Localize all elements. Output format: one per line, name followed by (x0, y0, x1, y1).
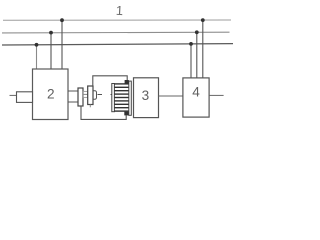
svg-text:3: 3 (142, 88, 150, 103)
svg-text:1: 1 (115, 3, 123, 18)
svg-text:2: 2 (47, 86, 55, 101)
svg-text:4: 4 (192, 84, 200, 99)
